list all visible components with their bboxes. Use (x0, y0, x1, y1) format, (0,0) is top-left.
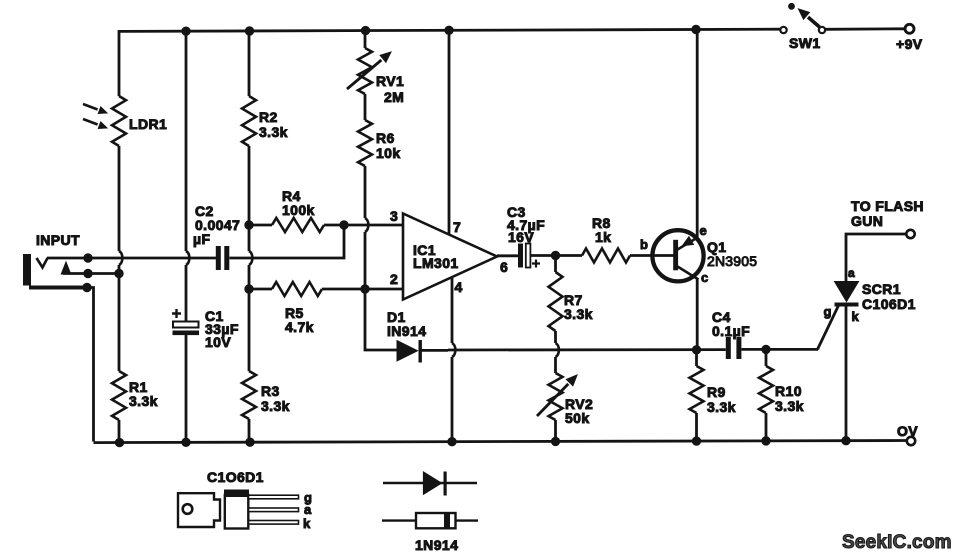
wire R9 bottom stub (695, 413, 698, 442)
svg-text:INPUT: INPUT (36, 232, 80, 248)
resistor R9 (690, 366, 704, 413)
svg-text:R3: R3 (261, 383, 280, 399)
C106D1 package body (225, 495, 249, 529)
input jack sleeve arm (29, 286, 88, 290)
wire R9 top stub (695, 350, 698, 366)
svg-text:GUN: GUN (851, 213, 883, 229)
svg-text:3.3k: 3.3k (129, 393, 158, 409)
node 0V rail junction R10 (762, 437, 770, 445)
svg-text:10k: 10k (376, 145, 401, 161)
resistor R4 (272, 218, 324, 232)
wire hop over tip wire at (119,258) (119, 251, 122, 265)
svg-text:b: b (640, 237, 648, 252)
thyristor SCR1 (835, 282, 859, 302)
svg-text:R9: R9 (707, 384, 726, 400)
wire trigger line (448, 348, 726, 351)
resistor R5 (272, 282, 322, 296)
svg-text:3.3k: 3.3k (564, 306, 593, 322)
svg-text:R10: R10 (775, 383, 802, 399)
node 0V rail junction C1 (182, 438, 190, 446)
wire R8 left stub (556, 254, 583, 257)
op-amp IC1 LM301 (403, 214, 497, 300)
svg-text:0.1µF: 0.1µF (712, 323, 750, 339)
node top-rail junction RV1 column (361, 26, 369, 34)
node 0V rail junction SCR (842, 436, 850, 444)
wire hop over trigger line at (555.5,350) (556, 343, 559, 357)
transistor Q1 base bar (673, 240, 678, 270)
node ring-wire junction (115, 269, 123, 277)
wire R10 top stub (765, 349, 768, 366)
wire R10 bottom stub (765, 413, 768, 442)
C106D1 package tab (178, 493, 220, 527)
svg-text:e: e (700, 223, 708, 238)
wire hop over tip wire at (186,258) (186, 251, 189, 265)
wire top +9V rail (119, 29, 904, 32)
svg-text:a: a (304, 502, 312, 517)
svg-text:OV: OV (897, 423, 918, 439)
svg-text:10V: 10V (205, 334, 231, 350)
resistor R2 (242, 96, 256, 146)
svg-text:+9V: +9V (896, 36, 923, 52)
node C3-R7-R8 junction (551, 251, 559, 259)
node R4-C2 junction (340, 221, 348, 229)
1N914 package drawing (382, 519, 478, 521)
wire C2 to R4 riser (230, 225, 345, 258)
node 0V rail junction pin4 (448, 437, 456, 445)
wire Q1 emitter to top rail (696, 30, 699, 239)
svg-text:SeekIC.com: SeekIC.com (842, 532, 952, 553)
resistor R8 (582, 249, 630, 263)
wire RV2 to 0V rail (554, 420, 557, 442)
node top-rail junction pin7 column (445, 26, 453, 34)
wire R8 to Q1 base (630, 254, 674, 257)
svg-text:1k: 1k (595, 229, 611, 245)
wire R5 left stub (249, 288, 272, 291)
resistor R7 (549, 272, 563, 331)
node top-rail junction Q1 emitter column (692, 25, 700, 33)
wire op-amp output (497, 254, 518, 257)
wire to RV2 (554, 357, 557, 373)
svg-text:IN914: IN914 (387, 323, 426, 339)
input jack ring contact (61, 262, 70, 274)
node 0V rail junction R9 (692, 437, 700, 445)
svg-text:k: k (852, 309, 860, 324)
RV2 wiper arrow (537, 384, 568, 416)
C106D1 package hole (183, 504, 193, 514)
wire hop over tip wire at (249,258) (249, 251, 252, 265)
svg-text:6: 6 (500, 259, 508, 275)
svg-text:C106D1: C106D1 (862, 296, 916, 312)
svg-text:3: 3 (390, 208, 398, 224)
transistor Q1 collector (678, 267, 699, 280)
svg-text:g: g (824, 304, 832, 319)
wire R4 to pin 3 (324, 224, 403, 227)
C106D1 pin g (249, 495, 299, 499)
svg-text:SW1: SW1 (789, 35, 821, 51)
node R4 junction (245, 221, 253, 229)
node sleeve wire dot (83, 283, 91, 291)
wire pin3 crossing to pin2 node (364, 232, 367, 289)
svg-text:3.3k: 3.3k (259, 124, 288, 140)
svg-text:µF: µF (193, 231, 210, 247)
C106D1 pin a (249, 508, 299, 512)
node pin2 junction (361, 285, 369, 293)
wire to C1 top plate (185, 265, 188, 322)
wire SCR gate diagonal (818, 306, 839, 350)
svg-text:1N914: 1N914 (415, 537, 458, 553)
svg-text:RV1: RV1 (376, 73, 404, 89)
svg-text:TO FLASH: TO FLASH (851, 198, 924, 214)
svg-text:50k: 50k (565, 410, 590, 426)
capacitor C3 (518, 244, 523, 268)
svg-text:100k: 100k (282, 202, 315, 218)
svg-text:3.3k: 3.3k (261, 398, 290, 414)
svg-text:R2: R2 (259, 109, 278, 125)
svg-text:C1O6D1: C1O6D1 (207, 469, 264, 485)
wire ring to LDR column (63, 272, 120, 275)
wire hop over D1 line at (452,350) (452, 343, 455, 357)
C106D1 pin k (249, 521, 299, 525)
node R5 junction (245, 285, 253, 293)
wire input node down to R1 (118, 265, 121, 371)
potentiometer RV2 (549, 373, 563, 420)
wire flash terminal to SCR anode (846, 234, 906, 282)
wire 0V bottom rail (94, 441, 907, 443)
wire R4 node to R5 node (248, 265, 251, 371)
node ring wire dot (84, 269, 92, 277)
svg-text:R6: R6 (376, 130, 395, 146)
wire R2 to R4 node (248, 146, 251, 251)
svg-text:2N3905: 2N3905 (707, 253, 757, 269)
wire LDR1 to input node (118, 146, 121, 251)
wire R7 to crossing (554, 331, 557, 343)
wire pin 7 to top rail (448, 30, 451, 235)
node collector-R9-C4 junction (692, 346, 700, 354)
1N914 diode symbol (383, 482, 477, 485)
terminal +9V (905, 24, 914, 33)
svg-text:7: 7 (453, 219, 461, 235)
resistor R10 (759, 366, 773, 413)
wire C4 to gate corner (741, 348, 818, 351)
input jack body (23, 254, 31, 286)
wire Q1 collector down (696, 278, 699, 350)
wire tip to C2 (47, 257, 216, 260)
wire RV1 to R6 (364, 94, 367, 120)
switch SW1 (780, 27, 786, 33)
wire RV1 column top (364, 30, 367, 48)
wire R2 column top (248, 30, 251, 96)
wire D1 line to pin4 crossing (421, 349, 448, 352)
input jack tip contact (37, 258, 48, 268)
svg-text:LM301: LM301 (413, 255, 459, 271)
svg-text:LDR1: LDR1 (129, 116, 167, 132)
wire pin 4 down (451, 277, 454, 343)
wire R7 top stub (554, 256, 557, 273)
C106D1 package top band (224, 490, 249, 498)
node top-rail junction C1 column (182, 27, 190, 35)
resistor R1 (112, 371, 126, 420)
wire R1 to 0V rail (118, 420, 121, 442)
terminal flash gun (906, 230, 914, 238)
transistor Q1 emitter (678, 238, 698, 250)
svg-text:c: c (701, 270, 709, 285)
svg-text:2M: 2M (384, 89, 404, 105)
wire R4 left stub (249, 224, 272, 227)
svg-text:2: 2 (390, 271, 398, 287)
svg-text:3.3k: 3.3k (775, 398, 804, 414)
wire hop over pin3 wire at (365,225) (365, 218, 368, 232)
wire pin 4 to 0V rail (451, 357, 454, 442)
resistor R6 (358, 120, 372, 166)
capacitor C4 (726, 337, 731, 359)
wire C3 to R7 node (531, 254, 557, 257)
wire SCR cathode to 0V rail (845, 307, 848, 442)
resistor R3 (242, 371, 256, 419)
wire R5 to pin 2 (322, 288, 403, 291)
photoresistor LDR1 (112, 96, 126, 146)
node 0V rail junction RV2 (551, 437, 559, 445)
C3 plus sign (532, 260, 540, 268)
node R10 junction (762, 345, 770, 353)
diode D1 (397, 341, 418, 362)
svg-text:3.3k: 3.3k (707, 399, 736, 415)
node 0V rail junction R1 (115, 438, 123, 446)
node 0V rail junction R3 (246, 438, 254, 446)
wire C1 column top (185, 30, 188, 251)
potentiometer RV1 (358, 48, 372, 94)
wire R6 down to pin2 node (364, 166, 367, 218)
node top-rail junction R2 column (245, 27, 253, 35)
capacitor C2 (216, 246, 221, 270)
node tip wire dot (84, 254, 92, 262)
svg-text:k: k (303, 516, 311, 531)
wire sleeve down to 0V rail (88, 288, 94, 442)
svg-text:a: a (848, 266, 855, 280)
svg-text:4: 4 (455, 279, 463, 295)
wire pin2 node down to D1 line (365, 289, 397, 350)
wire R3 to 0V rail (248, 419, 251, 442)
svg-text:SCR1: SCR1 (862, 281, 901, 297)
LDR1 light arrows (83, 104, 98, 110)
terminal 0V (907, 437, 915, 445)
RV1 wiper arrow (347, 60, 381, 89)
svg-text:4.7k: 4.7k (285, 319, 314, 335)
wire LDR1 column top (118, 30, 121, 96)
transistor Q1 circle (652, 230, 703, 281)
capacitor C1 plus sign (172, 309, 181, 318)
capacitor C1 (173, 322, 199, 328)
wire C1 to 0V rail (185, 335, 188, 442)
